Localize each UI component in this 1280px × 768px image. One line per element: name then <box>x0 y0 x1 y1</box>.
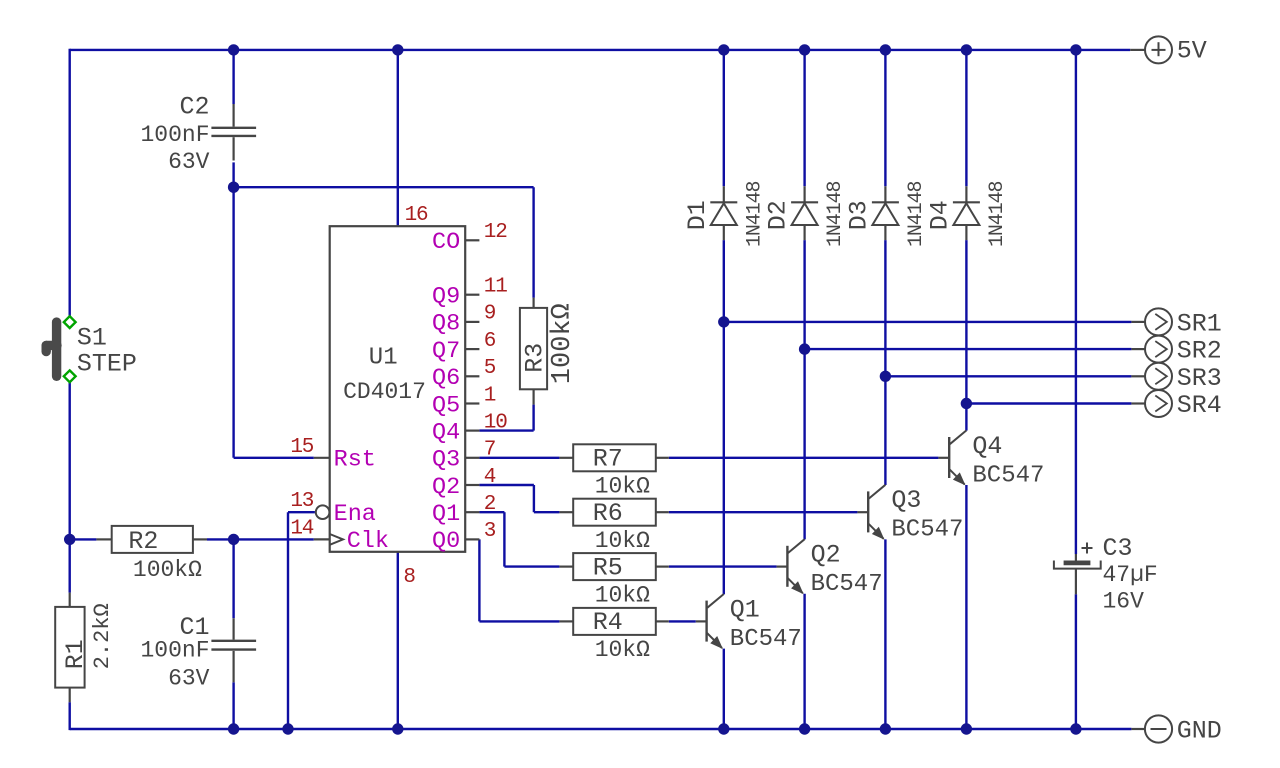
svg-text:100kΩ: 100kΩ <box>548 303 578 384</box>
svg-text:Q4: Q4 <box>972 432 1002 461</box>
svg-text:Q7: Q7 <box>432 338 460 365</box>
svg-text:C2: C2 <box>179 92 209 121</box>
svg-text:D2: D2 <box>764 200 793 230</box>
svg-text:10: 10 <box>484 411 507 434</box>
svg-text:100nF: 100nF <box>140 122 209 148</box>
svg-text:SR1: SR1 <box>1177 309 1222 338</box>
svg-text:Rst: Rst <box>334 447 376 474</box>
svg-text:3: 3 <box>484 520 496 543</box>
svg-text:100nF: 100nF <box>140 638 209 664</box>
svg-text:13: 13 <box>290 490 313 513</box>
svg-text:16V: 16V <box>1103 589 1145 615</box>
svg-text:R2: R2 <box>128 527 158 556</box>
svg-text:BC547: BC547 <box>972 462 1044 489</box>
svg-text:Ena: Ena <box>334 501 376 528</box>
svg-text:SR2: SR2 <box>1177 337 1222 366</box>
svg-text:CO: CO <box>432 229 460 256</box>
svg-text:Q8: Q8 <box>432 311 460 338</box>
svg-text:R3: R3 <box>521 343 550 373</box>
svg-text:Q6: Q6 <box>432 365 460 392</box>
svg-text:5: 5 <box>484 357 496 380</box>
svg-text:Q0: Q0 <box>432 528 460 555</box>
svg-text:16: 16 <box>405 204 428 227</box>
svg-text:47µF: 47µF <box>1103 562 1158 588</box>
svg-text:4: 4 <box>484 466 496 489</box>
svg-text:100kΩ: 100kΩ <box>133 557 202 583</box>
svg-text:5V: 5V <box>1177 37 1207 66</box>
svg-text:Q4: Q4 <box>432 419 460 446</box>
svg-text:STEP: STEP <box>77 350 137 379</box>
svg-text:SR4: SR4 <box>1177 391 1222 420</box>
svg-text:Q3: Q3 <box>891 486 921 515</box>
svg-text:Q5: Q5 <box>432 392 460 419</box>
svg-text:R6: R6 <box>593 499 623 528</box>
svg-text:D4: D4 <box>925 200 954 230</box>
svg-text:10kΩ: 10kΩ <box>595 528 650 554</box>
svg-text:63V: 63V <box>168 149 210 175</box>
svg-text:GND: GND <box>1177 716 1222 745</box>
svg-text:D3: D3 <box>844 200 873 230</box>
svg-text:U1: U1 <box>369 345 398 372</box>
svg-text:10kΩ: 10kΩ <box>595 637 650 663</box>
svg-text:14: 14 <box>290 517 313 540</box>
svg-text:R7: R7 <box>593 445 623 474</box>
svg-text:CD4017: CD4017 <box>343 379 426 405</box>
svg-text:11: 11 <box>484 276 507 299</box>
svg-text:7: 7 <box>484 439 495 462</box>
svg-text:8: 8 <box>403 566 416 589</box>
svg-text:Q1: Q1 <box>730 595 760 624</box>
svg-text:10kΩ: 10kΩ <box>595 474 650 500</box>
svg-text:S1: S1 <box>77 324 107 353</box>
svg-text:1: 1 <box>484 384 496 407</box>
svg-text:2: 2 <box>484 493 496 516</box>
svg-text:Q9: Q9 <box>432 284 460 311</box>
svg-text:Q1: Q1 <box>432 501 460 528</box>
svg-text:R5: R5 <box>593 553 623 582</box>
svg-text:15: 15 <box>290 436 313 459</box>
svg-text:9: 9 <box>484 303 496 326</box>
svg-text:12: 12 <box>484 221 507 244</box>
svg-text:6: 6 <box>484 330 496 353</box>
svg-text:BC547: BC547 <box>811 571 883 598</box>
svg-text:Q2: Q2 <box>432 474 460 501</box>
svg-text:BC547: BC547 <box>891 517 963 544</box>
svg-text:D1: D1 <box>683 200 712 230</box>
svg-text:SR3: SR3 <box>1177 364 1222 393</box>
svg-text:1N4148: 1N4148 <box>986 181 1009 247</box>
svg-text:Q3: Q3 <box>432 447 460 474</box>
svg-text:R1: R1 <box>61 639 90 669</box>
svg-text:Q2: Q2 <box>811 541 841 570</box>
svg-text:Clk: Clk <box>347 528 389 555</box>
svg-text:10kΩ: 10kΩ <box>595 582 650 608</box>
svg-text:R4: R4 <box>593 608 623 637</box>
svg-text:2.2kΩ: 2.2kΩ <box>90 603 115 669</box>
svg-text:63V: 63V <box>168 666 210 692</box>
svg-text:BC547: BC547 <box>730 626 802 653</box>
svg-text:C3: C3 <box>1103 534 1133 563</box>
